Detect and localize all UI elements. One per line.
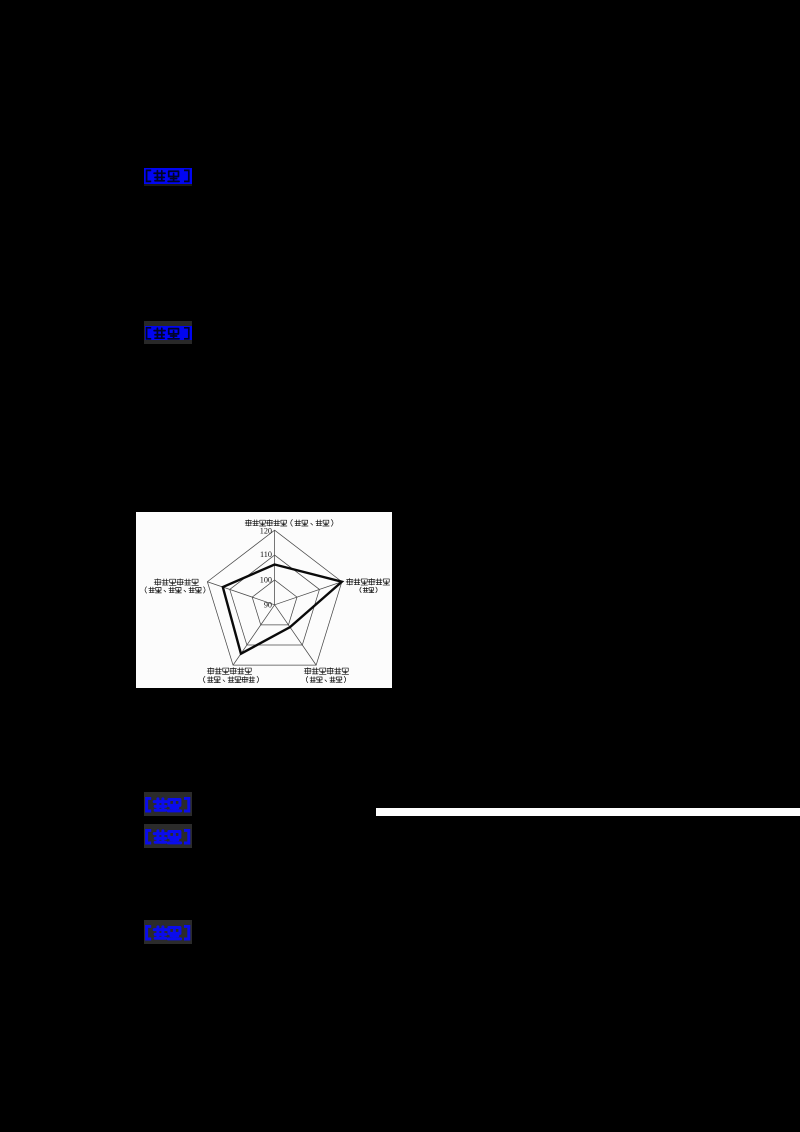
axis label top: 生存支持系统（资源、农业） bbox=[245, 520, 252, 526]
radar grid ring 120 outer pentagon bbox=[207, 530, 341, 665]
marker E 解析 blue text on gray bbox=[144, 920, 192, 944]
marker A blue highlight 例1 bbox=[144, 168, 192, 184]
svg-text:110: 110 bbox=[260, 550, 272, 559]
svg-text:90: 90 bbox=[264, 601, 272, 610]
radar spokes bbox=[207, 530, 341, 665]
marker D 解析 blue text on gray bbox=[144, 824, 192, 848]
axis label bottom-right: 环境支持系统（污染、生态） bbox=[304, 668, 311, 675]
radar grid ring 110 bbox=[230, 555, 320, 645]
marker C 答案 blue text on gray bbox=[144, 792, 192, 816]
marker A halo bbox=[144, 184, 192, 186]
axis label left: 智力支持系统（教育、科技、管理） bbox=[154, 579, 161, 586]
svg-text:120: 120 bbox=[260, 527, 272, 536]
axis label bottom-left: 社会支持系统（人口、社会保障） bbox=[207, 668, 214, 675]
marker B blue highlight 例2 bbox=[144, 321, 192, 344]
svg-text:100: 100 bbox=[260, 576, 272, 585]
axis label right: 发展支持系统（经济） bbox=[346, 579, 353, 586]
data series thick polygon bbox=[223, 565, 342, 654]
radar grid ring 100 bbox=[252, 580, 297, 625]
answer blank white line bbox=[376, 808, 800, 816]
radar chart figure bbox=[136, 512, 392, 688]
